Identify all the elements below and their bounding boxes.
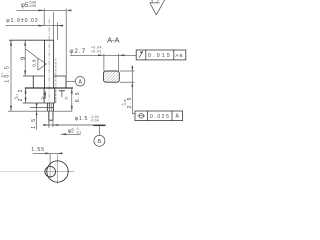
bottom view: dimension 1.55: [31, 147, 45, 153]
stem tip dimension phi1.5 with datum B: [48, 120, 50, 127]
dimension phi1.9 text: [6, 18, 39, 24]
phi5 right extension: [65, 8, 67, 76]
section label A-A: [107, 36, 120, 45]
section box extensions: [103, 54, 105, 71]
datum B symbol: [93, 124, 105, 126]
dimension 6.5: [71, 88, 73, 111]
dimension 2.2: [25, 88, 27, 103]
section arrow right A: [59, 90, 65, 92]
datum A balloon: [66, 80, 75, 82]
extension tube left edge up: [43, 9, 45, 26]
part top face: [9, 39, 54, 41]
svg-text:1.55: 1.55: [31, 147, 45, 153]
bottom view big circle: [47, 161, 68, 182]
mid block outline: [43, 88, 45, 103]
concentricity symbol: [139, 114, 144, 119]
callout phi1.5 text: [75, 115, 99, 122]
roughness 3.2 top right: [150, 0, 159, 5]
svg-text:-0.06: -0.06: [29, 4, 37, 8]
flange outline: [32, 76, 34, 88]
stem chamfer line + 1.5 extension: [30, 107, 53, 109]
tube left edge: [44, 40, 46, 88]
long extension line: [8, 110, 72, 112]
svg-text:-0.1: -0.1: [76, 130, 82, 134]
svg-text:φ1.5: φ1.5: [75, 116, 88, 122]
bottom view small circle: [45, 166, 56, 177]
runout symbol: [139, 52, 143, 58]
callout phi2.7: [69, 46, 101, 55]
stem A outline: [46, 103, 48, 111]
svg-text:-0.04: -0.04: [90, 118, 99, 122]
svg-text:1.5: 1.5: [31, 118, 37, 129]
svg-text:φ2.7: φ2.7: [69, 49, 86, 55]
svg-text:+0.01: +0.01: [91, 50, 102, 54]
section arrow left A: [44, 93, 46, 99]
svg-text:0.8: 0.8: [31, 59, 36, 67]
tube right edge: [53, 40, 55, 88]
bottom view centerlines: [57, 154, 59, 184]
svg-text:0.015: 0.015: [148, 53, 172, 59]
feature control frame 1: [136, 50, 186, 60]
centerline main: [48, 19, 50, 128]
svg-text:2.5: 2.5: [127, 96, 133, 109]
bore roughness 0.8 symbol: [26, 49, 38, 58]
dimension 10.5 overall: [10, 40, 12, 111]
svg-text:A: A: [78, 79, 82, 85]
dimension phi5 line: [17, 9, 67, 11]
svg-text:A-A: A-A: [107, 36, 120, 45]
svg-text:10.5: 10.5: [5, 64, 11, 83]
svg-text:3.2: 3.2: [150, 0, 159, 5]
dimension phi5 text: [21, 1, 36, 10]
dimension 1.5: [36, 104, 38, 130]
svg-text:0.025: 0.025: [150, 114, 171, 120]
svg-text:A-B: A-B: [175, 53, 182, 58]
svg-text:6.5: 6.5: [75, 91, 81, 102]
stem B outline: [48, 111, 50, 120]
dimension 9: [24, 40, 26, 76]
svg-text:B: B: [98, 139, 102, 145]
dimension phi1.9 line: [6, 25, 58, 27]
extension lines above part: [53, 12, 55, 40]
svg-text:φ1.9±0.02: φ1.9±0.02: [6, 18, 39, 24]
hidden line right of tube: [55, 59, 57, 104]
feature control frame 2: [135, 111, 183, 121]
leader line to frame 1: [70, 54, 136, 56]
svg-text:φ2: φ2: [68, 129, 74, 135]
dimension 2.5: [131, 66, 133, 114]
svg-text:-0.1: -0.1: [0, 73, 4, 78]
callout phi2: [68, 127, 82, 134]
svg-text:9: 9: [21, 56, 27, 60]
svg-text:A: A: [65, 95, 69, 100]
